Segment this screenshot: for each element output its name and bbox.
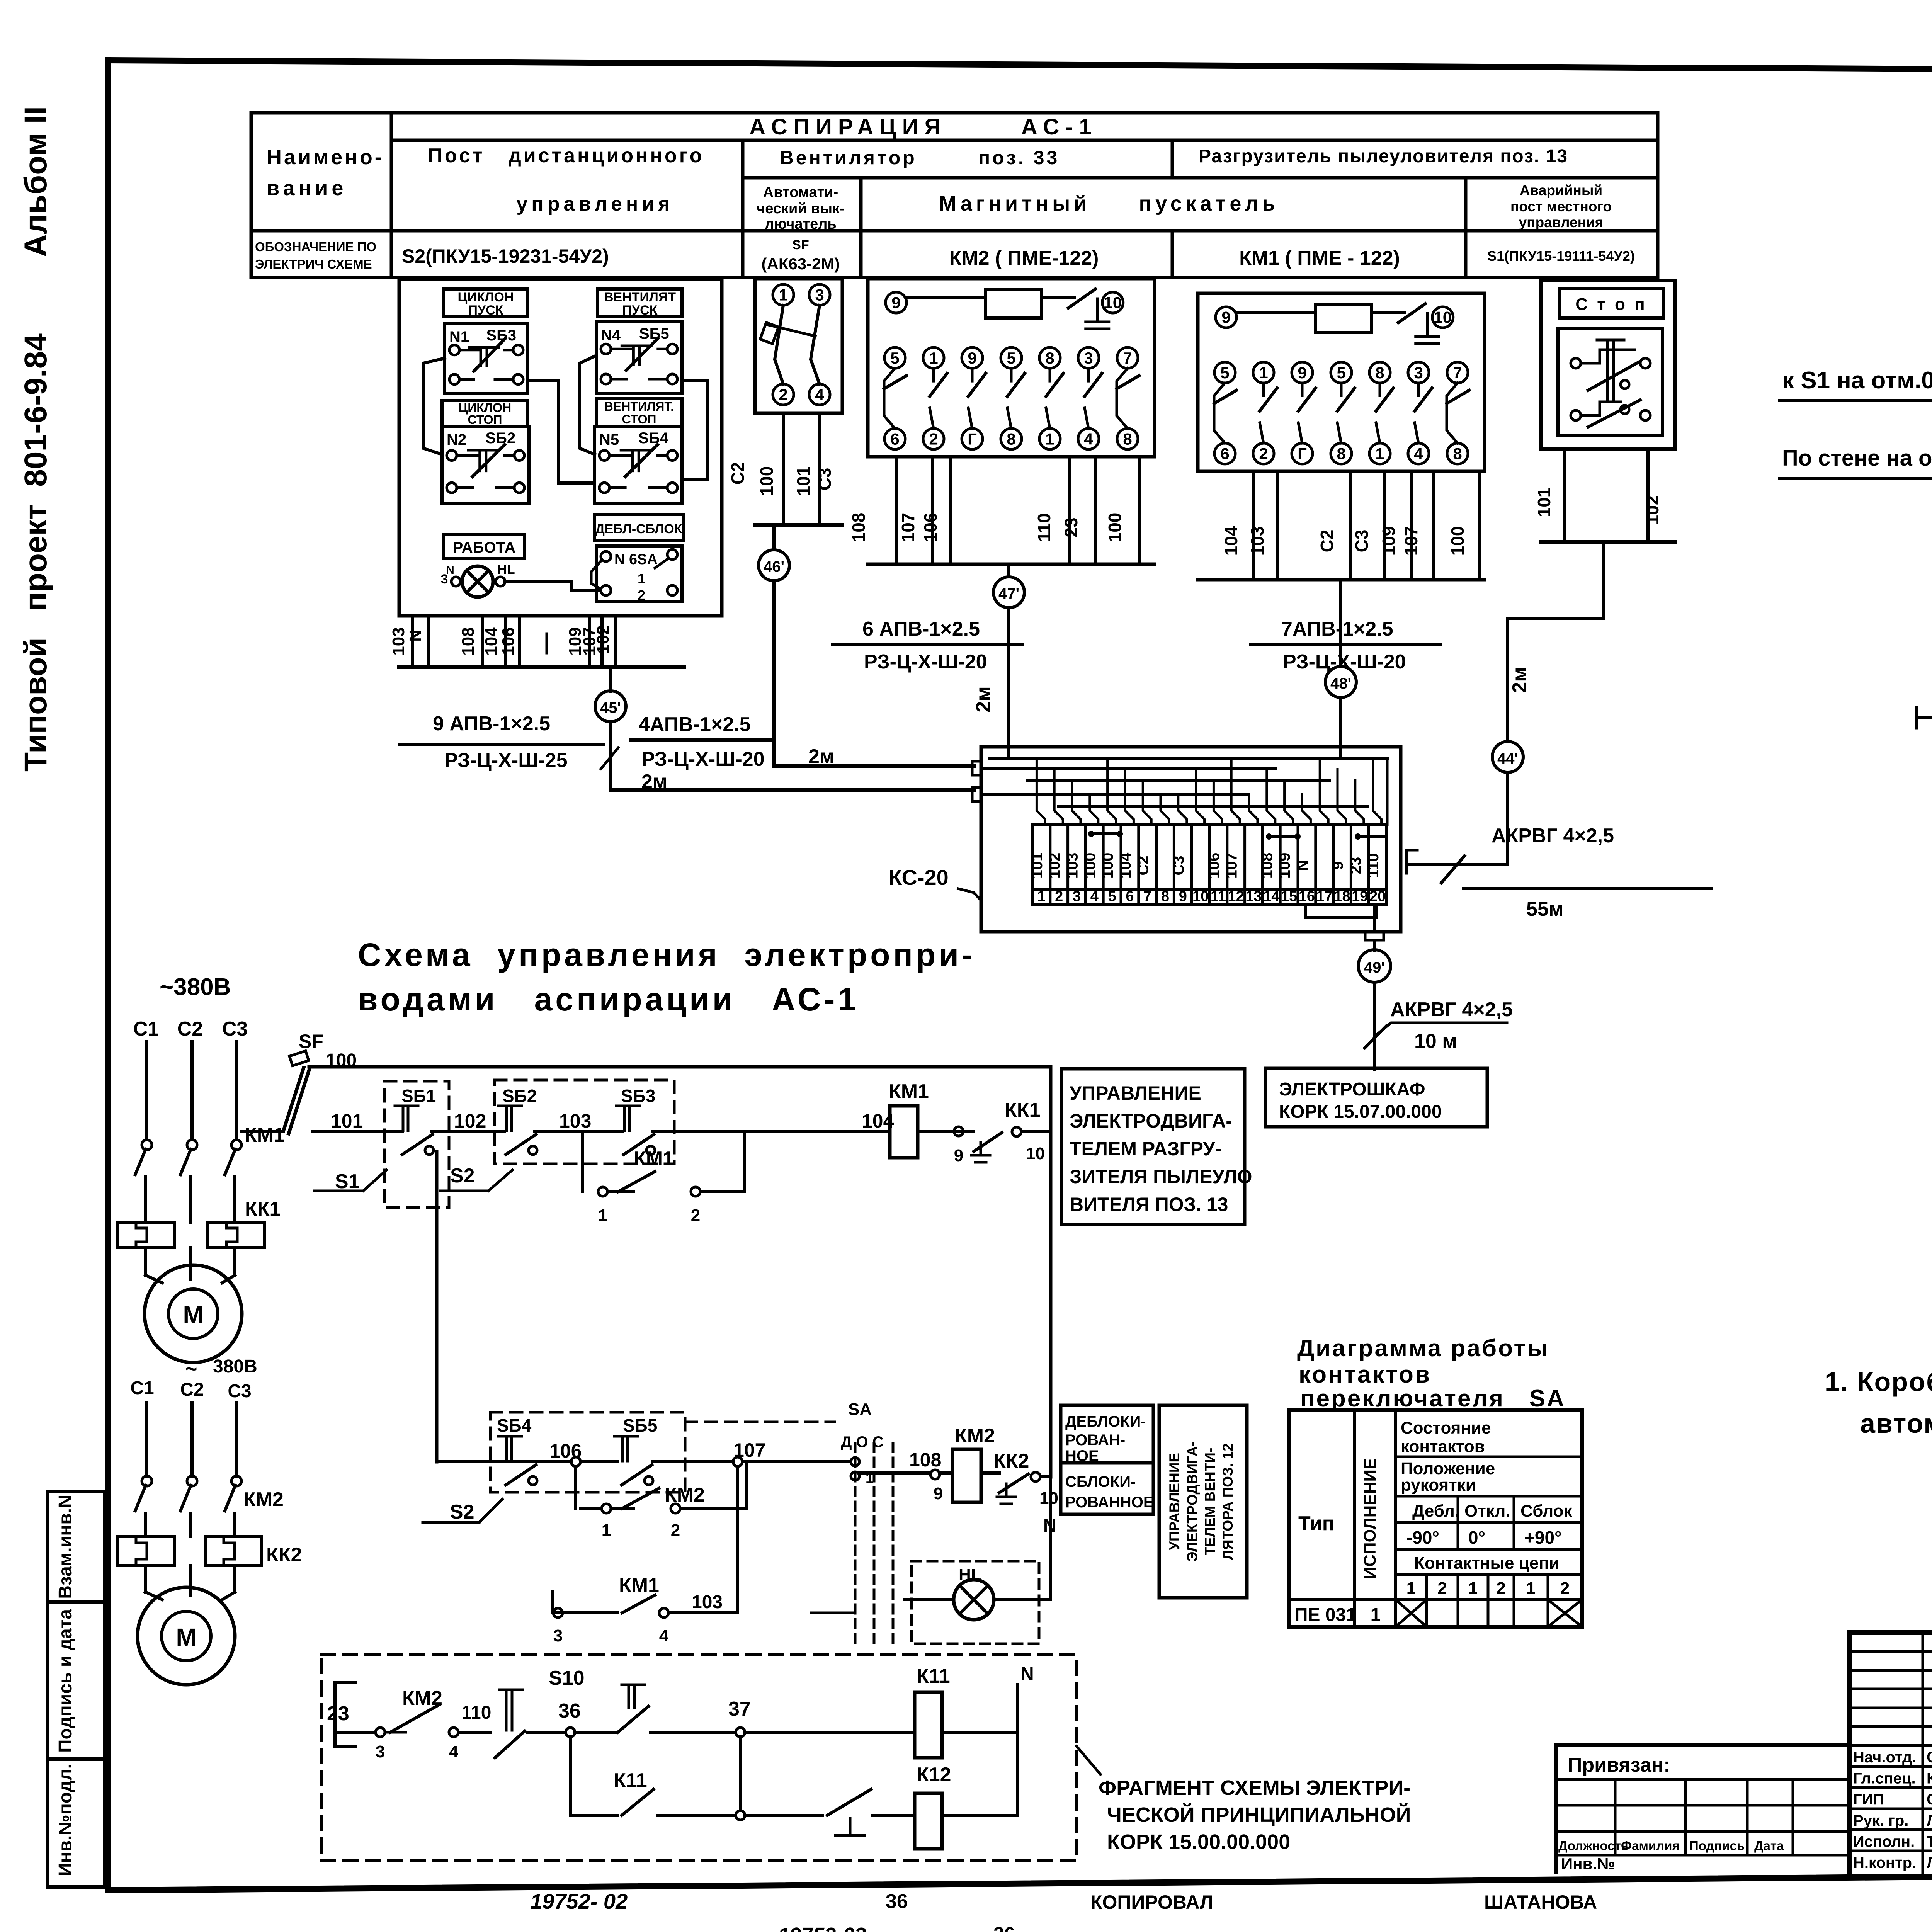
svg-text:Нач.отд.: Нач.отд. [1853, 1749, 1916, 1766]
svg-text:С2: С2 [177, 1018, 203, 1040]
svg-text:Вентилятор поз. 33: Вентилятор поз. 33 [780, 147, 1060, 168]
svg-text:1: 1 [929, 349, 938, 367]
svg-text:S2: S2 [450, 1501, 474, 1523]
svg-text:7: 7 [1453, 364, 1462, 382]
svg-text:КК1: КК1 [1005, 1099, 1040, 1121]
svg-text:Инв.№подл.: Инв.№подл. [55, 1764, 76, 1876]
svg-text:6: 6 [890, 430, 899, 448]
svg-text:Диаграмма работы: Диаграмма работы [1297, 1335, 1549, 1362]
svg-text:2: 2 [671, 1521, 680, 1540]
svg-text:СЫРКИН: СЫРКИН [1927, 1791, 1932, 1808]
svg-text:36: 36 [993, 1923, 1015, 1932]
svg-text:SБ4: SБ4 [497, 1415, 532, 1435]
svg-text:С т о п: С т о п [1575, 295, 1647, 314]
svg-text:13: 13 [1245, 888, 1262, 905]
svg-text:0°: 0° [1468, 1527, 1485, 1548]
svg-text:37: 37 [728, 1698, 751, 1720]
svg-text:лючатель: лючатель [765, 216, 837, 232]
svg-text:HL: HL [497, 562, 515, 577]
svg-text:-90°: -90° [1406, 1527, 1439, 1548]
svg-text:8: 8 [1453, 445, 1462, 463]
svg-text:Разгрузитель пылеуловителя поз: Разгрузитель пылеуловителя поз. 13 [1199, 146, 1568, 167]
svg-text:380В: 380В [213, 1356, 257, 1377]
svg-text:8: 8 [1161, 888, 1169, 905]
svg-text:101: 101 [1029, 853, 1046, 879]
svg-text:9: 9 [1221, 308, 1230, 327]
svg-text:1: 1 [1371, 1605, 1381, 1625]
svg-text:ПУСК: ПУСК [622, 303, 658, 318]
svg-text:рукоятки: рукоятки [1401, 1476, 1476, 1495]
svg-text:10 м: 10 м [1414, 1030, 1457, 1053]
svg-text:Схема управления электропри-: Схема управления электропри- [358, 937, 976, 973]
svg-text:С2: С2 [1135, 855, 1152, 875]
svg-text:ЭЛЕКТРОДВИГА-: ЭЛЕКТРОДВИГА- [1070, 1110, 1232, 1132]
svg-text:10: 10 [1192, 888, 1209, 905]
svg-text:С2: С2 [1317, 530, 1337, 553]
svg-text:КК2: КК2 [266, 1544, 302, 1566]
svg-text:КМ1: КМ1 [634, 1148, 674, 1170]
svg-text:ПЕ 031: ПЕ 031 [1294, 1605, 1356, 1625]
svg-text:КМ2: КМ2 [955, 1425, 995, 1447]
svg-text:S1: S1 [335, 1170, 360, 1193]
svg-text:102: 102 [1046, 853, 1063, 879]
svg-text:КМ1: КМ1 [245, 1124, 285, 1146]
svg-text:Сблок: Сблок [1520, 1502, 1573, 1520]
svg-text:2: 2 [1437, 1579, 1447, 1598]
svg-text:2: 2 [1055, 888, 1063, 905]
svg-text:18: 18 [1334, 888, 1350, 905]
svg-text:9: 9 [968, 349, 976, 367]
svg-text:НОЕ: НОЕ [1065, 1447, 1099, 1464]
svg-text:100: 100 [1099, 853, 1116, 879]
svg-text:Магнитный пускатель: Магнитный пускатель [939, 192, 1279, 215]
svg-text:8: 8 [1045, 349, 1054, 367]
svg-text:3: 3 [815, 286, 824, 304]
svg-text:Подпись: Подпись [1689, 1838, 1745, 1853]
svg-text:К11: К11 [917, 1665, 950, 1687]
svg-text:1: 1 [1375, 445, 1384, 463]
svg-text:СТОП: СТОП [622, 412, 656, 426]
svg-text:КС-20: КС-20 [889, 865, 949, 889]
svg-text:2: 2 [691, 1206, 700, 1225]
svg-text:КОРК 15.07.00.000: КОРК 15.07.00.000 [1279, 1102, 1442, 1122]
svg-text:SF: SF [299, 1031, 323, 1052]
svg-text:контактов: контактов [1401, 1437, 1485, 1456]
svg-text:19: 19 [1352, 888, 1368, 905]
svg-text:101: 101 [1534, 488, 1554, 517]
svg-text:~: ~ [185, 1358, 197, 1380]
svg-text:ТЕЛЕМ РАЗГРУ-: ТЕЛЕМ РАЗГРУ- [1070, 1138, 1221, 1160]
svg-text:ШАТАНОВА: ШАТАНОВА [1484, 1891, 1597, 1913]
svg-text:пост местного: пост местного [1510, 199, 1612, 214]
svg-text:Альбом II: Альбом II [18, 106, 53, 257]
svg-text:SБ1: SБ1 [401, 1086, 436, 1106]
svg-text:РЗ-Ц-Х-Ш-20: РЗ-Ц-Х-Ш-20 [1283, 651, 1406, 673]
svg-text:ФРАГМЕНТ СХЕМЫ ЭЛЕКТРИ-: ФРАГМЕНТ СХЕМЫ ЭЛЕКТРИ- [1099, 1776, 1410, 1799]
svg-text:Наимено-: Наимено- [267, 146, 384, 169]
svg-text:4: 4 [1084, 430, 1093, 448]
svg-text:Автомати-: Автомати- [763, 184, 838, 201]
svg-text:106: 106 [499, 627, 518, 655]
svg-text:1: 1 [1037, 888, 1045, 905]
svg-text:КМ2: КМ2 [243, 1488, 284, 1511]
svg-text:104: 104 [482, 627, 501, 656]
svg-text:РЗ-Ц-Х-Ш-25: РЗ-Ц-Х-Ш-25 [444, 749, 568, 772]
svg-text:управления: управления [1519, 214, 1604, 230]
svg-text:ЭЛЕКТРОДВИГА-: ЭЛЕКТРОДВИГА- [1184, 1441, 1200, 1562]
svg-text:SА: SА [848, 1400, 872, 1419]
svg-text:16: 16 [1299, 888, 1315, 905]
svg-text:3: 3 [553, 1626, 563, 1645]
svg-text:2м: 2м [972, 686, 995, 712]
svg-text:Рук. гр.: Рук. гр. [1853, 1812, 1908, 1829]
svg-text:N: N [1020, 1664, 1034, 1684]
svg-text:107: 107 [1401, 526, 1421, 556]
svg-text:N: N [406, 629, 425, 642]
svg-text:103: 103 [389, 627, 408, 655]
svg-text:S2(ПКУ15-19231-54У2): S2(ПКУ15-19231-54У2) [402, 245, 609, 267]
svg-text:2: 2 [779, 386, 787, 404]
svg-text:к S1 на отм.0.000: к S1 на отм.0.000 [1782, 367, 1932, 394]
svg-text:контактов: контактов [1299, 1361, 1431, 1388]
svg-text:ТЕЛЕМ ВЕНТИ-: ТЕЛЕМ ВЕНТИ- [1202, 1448, 1218, 1556]
svg-text:23: 23 [1347, 857, 1364, 874]
svg-text:С1: С1 [130, 1378, 154, 1398]
svg-text:РОВАННОЕ: РОВАННОЕ [1065, 1494, 1154, 1511]
svg-text:7АПВ-1×2.5: 7АПВ-1×2.5 [1281, 618, 1393, 640]
svg-text:ОБОЗНАЧЕНИЕ ПО: ОБОЗНАЧЕНИЕ ПО [255, 240, 376, 254]
svg-text:Инв.№: Инв.№ [1561, 1855, 1615, 1873]
svg-text:10: 10 [1039, 1489, 1058, 1508]
svg-text:6 АПВ-1×2.5: 6 АПВ-1×2.5 [862, 618, 980, 640]
svg-text:55м: 55м [1526, 898, 1563, 920]
svg-text:10: 10 [1026, 1144, 1045, 1163]
svg-text:6: 6 [1126, 888, 1134, 905]
svg-text:Типовой проект 801-6-9.84: Типовой проект 801-6-9.84 [18, 333, 53, 772]
svg-text:4АПВ-1×2.5: 4АПВ-1×2.5 [639, 713, 751, 736]
svg-text:1: 1 [638, 571, 645, 587]
svg-text:3: 3 [376, 1742, 385, 1761]
svg-text:~380В: ~380В [160, 974, 231, 1000]
svg-text:М: М [183, 1301, 203, 1329]
svg-text:SБ5: SБ5 [623, 1415, 657, 1435]
svg-text:АКРВГ 4×2,5: АКРВГ 4×2,5 [1390, 998, 1513, 1021]
svg-text:23: 23 [1061, 517, 1081, 537]
svg-text:КИСЕЛЕВ: КИСЕЛЕВ [1927, 1770, 1932, 1787]
svg-text:45': 45' [600, 699, 621, 716]
svg-text:2: 2 [929, 430, 938, 448]
svg-text:109: 109 [1379, 526, 1399, 556]
svg-text:5: 5 [1220, 364, 1229, 382]
svg-text:С3: С3 [815, 468, 835, 491]
svg-text:9: 9 [1179, 888, 1187, 905]
svg-text:9: 9 [891, 294, 900, 312]
svg-text:КОРК 15.00.00.000: КОРК 15.00.00.000 [1107, 1830, 1290, 1854]
svg-text:3: 3 [1084, 349, 1093, 367]
svg-text:49': 49' [1364, 959, 1385, 976]
svg-text:Тип: Тип [1298, 1512, 1334, 1535]
svg-text:2: 2 [638, 587, 645, 603]
svg-text:РАБОТА: РАБОТА [453, 539, 516, 556]
svg-text:110: 110 [1034, 513, 1054, 542]
svg-text:ВЕНТИЛЯТ: ВЕНТИЛЯТ [604, 290, 676, 304]
svg-text:Взам.инв.N: Взам.инв.N [55, 1495, 76, 1599]
svg-text:23: 23 [327, 1702, 349, 1725]
svg-text:SБ4: SБ4 [638, 430, 668, 447]
svg-text:РОВАН-: РОВАН- [1065, 1432, 1125, 1449]
svg-text:1: 1 [1526, 1579, 1536, 1598]
svg-text:9: 9 [954, 1146, 963, 1165]
svg-text:19752-02: 19752-02 [778, 1923, 866, 1932]
svg-text:36: 36 [558, 1700, 581, 1722]
svg-text:108: 108 [459, 627, 478, 655]
svg-text:СБЛОКИ-: СБЛОКИ- [1065, 1473, 1136, 1490]
svg-text:4: 4 [1414, 445, 1423, 463]
svg-text:7: 7 [1143, 888, 1151, 905]
svg-text:1: 1 [1259, 364, 1268, 382]
svg-text:47': 47' [998, 585, 1019, 602]
svg-text:17: 17 [1316, 888, 1333, 905]
svg-text:48': 48' [1330, 675, 1351, 692]
svg-text:1: 1 [602, 1521, 611, 1540]
svg-text:36: 36 [886, 1890, 908, 1913]
svg-text:ЛЯТОРА ПОЗ. 12: ЛЯТОРА ПОЗ. 12 [1220, 1443, 1236, 1560]
svg-text:101: 101 [793, 466, 813, 496]
svg-text:6: 6 [1220, 445, 1229, 463]
svg-text:Дата: Дата [1754, 1838, 1784, 1853]
svg-text:СМИРНОВ: СМИРНОВ [1927, 1749, 1932, 1766]
svg-text:5: 5 [1108, 888, 1116, 905]
svg-text:АСПИРАЦИЯ АС-1: АСПИРАЦИЯ АС-1 [749, 114, 1098, 139]
svg-text:1. Коробку соединительную КС: 1. Коробку соединительную КС1 установить… [1825, 1367, 1932, 1397]
svg-text:+90°: +90° [1524, 1527, 1561, 1548]
svg-text:9: 9 [1330, 861, 1347, 870]
svg-text:9: 9 [934, 1484, 943, 1503]
svg-text:10: 10 [1104, 294, 1122, 312]
svg-text:3: 3 [1414, 364, 1423, 382]
svg-text:106: 106 [920, 513, 940, 543]
svg-text:N 6SА: N 6SА [614, 551, 658, 568]
svg-text:ВИТЕЛЯ ПОЗ. 13: ВИТЕЛЯ ПОЗ. 13 [1070, 1194, 1228, 1215]
svg-text:вание: вание [267, 177, 347, 200]
svg-text:Дебл.: Дебл. [1412, 1502, 1459, 1520]
svg-text:4: 4 [449, 1742, 459, 1761]
svg-text:2м: 2м [1509, 667, 1531, 693]
svg-text:10: 10 [1434, 308, 1452, 327]
svg-text:107: 107 [898, 513, 918, 543]
svg-text:SБ2: SБ2 [502, 1086, 537, 1106]
svg-text:106: 106 [1206, 853, 1223, 879]
svg-text:КМ1: КМ1 [889, 1080, 929, 1103]
svg-text:5: 5 [1337, 364, 1345, 382]
svg-text:ДЕБЛОКИ-: ДЕБЛОКИ- [1065, 1413, 1146, 1430]
svg-text:110: 110 [461, 1702, 491, 1723]
svg-text:РЗ-Ц-Х-Ш-20: РЗ-Ц-Х-Ш-20 [864, 651, 987, 673]
svg-text:SБ2: SБ2 [486, 430, 516, 447]
svg-text:5: 5 [890, 349, 899, 367]
svg-text:ТИТОВА: ТИТОВА [1927, 1833, 1932, 1850]
svg-text:S1(ПКУ15-19111-54У2): S1(ПКУ15-19111-54У2) [1487, 248, 1635, 264]
svg-text:автоматический выключатель н: автоматический выключатель на отм. +4.60… [1860, 1408, 1932, 1439]
svg-text:ВЕНТИЛЯТ.: ВЕНТИЛЯТ. [604, 400, 674, 413]
svg-text:8: 8 [1337, 445, 1345, 463]
svg-text:УПРАВЛЕНИЕ: УПРАВЛЕНИЕ [1167, 1453, 1182, 1550]
svg-text:Пост дистанционного: Пост дистанционного [428, 145, 704, 167]
svg-text:104: 104 [1117, 852, 1134, 878]
svg-text:108: 108 [1259, 853, 1276, 879]
svg-text:103: 103 [692, 1592, 723, 1612]
svg-text:HL: HL [959, 1565, 981, 1584]
svg-text:101: 101 [331, 1110, 363, 1132]
svg-text:Д О С: Д О С [841, 1434, 884, 1451]
svg-text:3: 3 [441, 572, 448, 587]
svg-text:КМ2: КМ2 [402, 1687, 442, 1709]
svg-text:103: 103 [1064, 853, 1081, 879]
svg-text:Гл.спец.: Гл.спец. [1853, 1770, 1916, 1787]
svg-text:5: 5 [1007, 349, 1015, 367]
svg-text:N1: N1 [449, 328, 469, 345]
svg-text:С3: С3 [1352, 530, 1372, 553]
svg-text:19752- 02: 19752- 02 [530, 1889, 628, 1913]
svg-text:ДЕБЛ-СБЛОК: ДЕБЛ-СБЛОК [595, 522, 682, 536]
svg-text:Исполн.: Исполн. [1853, 1833, 1915, 1850]
svg-text:12: 12 [1228, 888, 1244, 905]
svg-text:РЗ-Ц-Х-Ш-20: РЗ-Ц-Х-Ш-20 [641, 748, 765, 770]
svg-text:К12: К12 [917, 1764, 951, 1786]
svg-text:М: М [176, 1623, 196, 1651]
svg-text:8: 8 [1007, 430, 1015, 448]
svg-text:ЧЕСКОЙ ПРИНЦИПИАЛЬНОЙ: ЧЕСКОЙ ПРИНЦИПИАЛЬНОЙ [1107, 1803, 1411, 1827]
svg-text:С3: С3 [1170, 855, 1187, 875]
svg-text:С3: С3 [228, 1381, 251, 1401]
svg-text:4: 4 [1090, 888, 1099, 905]
svg-text:СТОП: СТОП [468, 413, 502, 427]
svg-text:управления: управления [516, 193, 673, 215]
svg-text:Г: Г [968, 430, 977, 448]
svg-text:Г: Г [1298, 445, 1307, 463]
svg-text:1: 1 [1406, 1579, 1416, 1598]
svg-text:АКРВГ 4×2,5: АКРВГ 4×2,5 [1492, 825, 1614, 847]
svg-text:Фамилия: Фамилия [1621, 1838, 1680, 1853]
svg-text:7: 7 [1123, 349, 1132, 367]
svg-text:1: 1 [1045, 430, 1054, 448]
svg-text:103: 103 [559, 1110, 591, 1132]
svg-text:103: 103 [1247, 526, 1267, 556]
svg-text:ЛАРИКОВ: ЛАРИКОВ [1927, 1812, 1932, 1829]
svg-text:2м: 2м [641, 770, 667, 793]
svg-text:Откл.: Откл. [1464, 1502, 1510, 1520]
svg-text:2м: 2м [808, 745, 834, 768]
svg-text:102: 102 [454, 1110, 486, 1132]
svg-text:ИСПОЛНЕНИЕ: ИСПОЛНЕНИЕ [1361, 1458, 1379, 1579]
svg-text:2: 2 [1560, 1579, 1570, 1598]
svg-text:К11: К11 [614, 1769, 647, 1792]
svg-text:По стене на отм.+5.500: По стене на отм.+5.500 [1782, 446, 1932, 471]
svg-text:100: 100 [1105, 513, 1125, 543]
svg-text:Контактные цепи: Контактные цепи [1414, 1554, 1560, 1573]
svg-text:1: 1 [598, 1206, 607, 1225]
svg-text:1: 1 [1468, 1579, 1478, 1598]
svg-text:(АК63-2М): (АК63-2М) [762, 255, 840, 273]
svg-text:8: 8 [1375, 364, 1384, 382]
svg-text:ГИП: ГИП [1853, 1791, 1884, 1808]
svg-text:КК2: КК2 [993, 1450, 1029, 1472]
svg-text:С2: С2 [180, 1379, 204, 1400]
svg-text:Аварийный: Аварийный [1520, 182, 1602, 198]
svg-text:108: 108 [849, 513, 869, 543]
svg-text:Н.контр.: Н.контр. [1853, 1854, 1916, 1871]
svg-text:ЗИТЕЛЯ ПЫЛЕУЛО: ЗИТЕЛЯ ПЫЛЕУЛО [1070, 1166, 1252, 1187]
svg-text:102: 102 [594, 625, 612, 653]
svg-text:ческий вык-: ческий вык- [757, 201, 845, 217]
svg-text:2: 2 [1496, 1579, 1505, 1598]
svg-text:1: 1 [779, 286, 787, 304]
svg-text:ПУСК: ПУСК [468, 303, 503, 318]
svg-text:100: 100 [757, 466, 777, 496]
svg-text:КМ1: КМ1 [619, 1574, 659, 1597]
svg-text:104: 104 [1221, 526, 1241, 556]
svg-text:SБ5: SБ5 [639, 325, 669, 342]
svg-text:ЭЛЕКТРОШКАФ: ЭЛЕКТРОШКАФ [1279, 1079, 1425, 1100]
svg-text:КМ2: КМ2 [665, 1484, 705, 1506]
svg-text:14: 14 [1263, 888, 1279, 905]
svg-text:100: 100 [1447, 526, 1468, 556]
svg-text:3: 3 [1073, 888, 1081, 905]
svg-text:ЛАРИКОВ: ЛАРИКОВ [1927, 1854, 1932, 1871]
svg-text:SБ3: SБ3 [621, 1086, 655, 1106]
svg-text:ЦИКЛОН: ЦИКЛОН [458, 290, 514, 304]
svg-text:9 АПВ-1×2.5: 9 АПВ-1×2.5 [433, 713, 550, 735]
svg-text:КОПИРОВАЛ: КОПИРОВАЛ [1090, 1891, 1213, 1913]
svg-text:С1: С1 [133, 1018, 159, 1040]
svg-text:КК1: КК1 [245, 1198, 281, 1220]
svg-text:4: 4 [659, 1626, 669, 1645]
svg-text:УПРАВЛЕНИЕ: УПРАВЛЕНИЕ [1070, 1082, 1201, 1104]
svg-text:Должность: Должность [1558, 1838, 1629, 1853]
svg-text:109: 109 [1276, 853, 1293, 879]
svg-text:S2: S2 [450, 1165, 475, 1187]
svg-text:Привязан:: Привязан: [1568, 1754, 1670, 1776]
svg-text:ЭЛЕКТРИЧ СХЕМЕ: ЭЛЕКТРИЧ СХЕМЕ [255, 257, 372, 271]
svg-text:N: N [1294, 860, 1311, 871]
svg-text:КМ2 ( ПМЕ-122): КМ2 ( ПМЕ-122) [949, 247, 1099, 269]
svg-text:2: 2 [1259, 445, 1268, 463]
svg-text:S10: S10 [549, 1667, 585, 1689]
svg-text:15: 15 [1281, 888, 1297, 905]
svg-text:переключателя SА: переключателя SА [1300, 1385, 1566, 1412]
svg-text:Состояние: Состояние [1401, 1418, 1491, 1437]
svg-text:Положение: Положение [1401, 1459, 1495, 1478]
svg-text:107: 107 [1223, 853, 1240, 879]
svg-text:N4: N4 [601, 327, 621, 344]
svg-text:N5: N5 [599, 431, 619, 448]
svg-text:SF: SF [792, 238, 809, 252]
svg-text:46': 46' [764, 558, 784, 575]
svg-text:20: 20 [1369, 888, 1386, 905]
svg-text:8: 8 [1123, 430, 1132, 448]
svg-text:102: 102 [1642, 495, 1662, 525]
svg-text:108: 108 [909, 1449, 941, 1471]
svg-text:КМ1 ( ПМЕ - 122): КМ1 ( ПМЕ - 122) [1239, 247, 1400, 269]
svg-text:водами аспирации АС-1: водами аспирации АС-1 [358, 981, 859, 1017]
svg-text:110: 110 [1365, 853, 1382, 878]
svg-text:Подпись и дата: Подпись и дата [55, 1609, 76, 1753]
svg-text:4: 4 [815, 386, 824, 404]
svg-text:N2: N2 [447, 431, 466, 448]
svg-text:44': 44' [1497, 750, 1518, 767]
svg-text:9: 9 [1298, 364, 1306, 382]
svg-text:100: 100 [1082, 853, 1099, 879]
